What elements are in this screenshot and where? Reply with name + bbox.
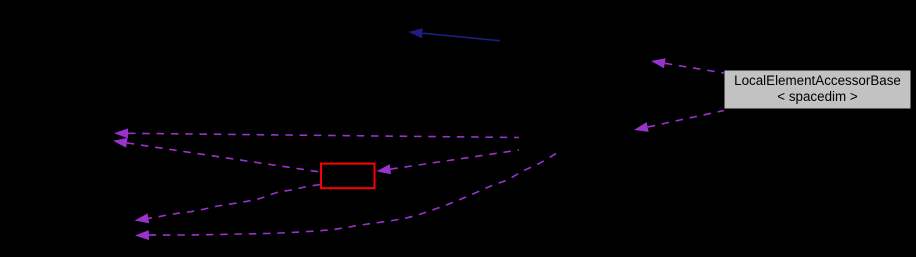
edge E2: dashed purple arrow from gray box to upper-left node (wire)	[651, 58, 724, 73]
svg-text:< spacedim >: < spacedim >	[777, 89, 858, 104]
edge E1: blue inheritance arrow (wire)	[408, 28, 499, 40]
node: red highlighted box (current class)	[321, 164, 375, 189]
edge E8: long curved dashed purple arrow from center node to bottom-left node (wire)	[135, 154, 556, 241]
edge E5: dashed purple arrow from red box to far-left node (wire)	[113, 138, 320, 172]
svg-text:LocalElementAccessorBase: LocalElementAccessorBase	[734, 73, 901, 88]
edge E4: long horizontal dashed purple arrow to far-left node (wire)	[114, 128, 519, 138]
node: gray box LocalElementAccessorBase	[724, 70, 911, 109]
edge E7: curved dashed purple arrow from red box to lower-left node (wire)	[135, 185, 321, 224]
edge E3: dashed purple arrow from gray box to mid-left node (wire)	[634, 111, 724, 132]
edge E6: dashed purple arrow into red box right edge (wire)	[377, 150, 520, 174]
